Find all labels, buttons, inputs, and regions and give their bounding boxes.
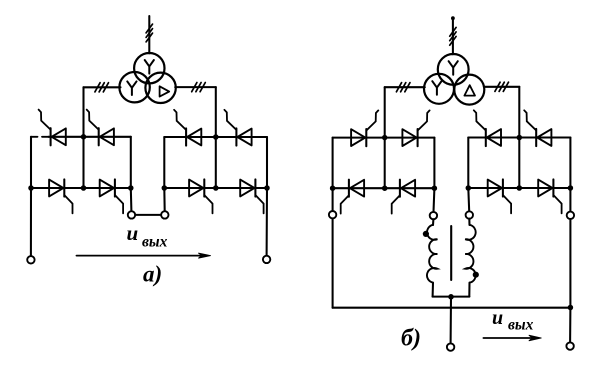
thyristor VS4 (100, 180, 114, 197)
transformer T1 primary feed wire (148, 16, 150, 53)
node junction (568, 185, 574, 191)
wire right feed drop (215, 87, 217, 137)
wire right vertical right group (266, 137, 268, 188)
svg-text:вых: вых (142, 233, 168, 250)
wire midpoint down to output (450, 297, 452, 344)
thyristor VS5 (187, 129, 201, 146)
terminal output left (27, 256, 34, 263)
node junction (213, 185, 219, 191)
wire right vertical right group (b) (569, 138, 571, 189)
wire left vertical (30, 137, 32, 188)
thyristor VS12 (401, 180, 415, 197)
thyristor VS6 (237, 129, 251, 146)
thyristor VS15 (488, 180, 502, 197)
3-phase marks left feed T2 (396, 83, 401, 92)
svg-text:а): а) (143, 262, 162, 287)
thyristor VS7 (189, 180, 203, 197)
thyristor VS9 (351, 129, 365, 146)
node junction (432, 185, 438, 191)
svg-text:вых: вых (508, 316, 534, 333)
node junction bottom-left (28, 185, 34, 191)
wire left vertical right group (b) (467, 138, 469, 189)
thyristor VS13 (487, 129, 501, 146)
transformer T1 3-phase marks on feed (146, 24, 152, 33)
svg-text:и: и (127, 221, 139, 245)
terminal center-left (128, 211, 135, 218)
wire down to reactor terminal right (467, 188, 470, 211)
reactor L1 right winding (465, 225, 476, 283)
terminal reactor left (430, 212, 437, 219)
delta symbol right winding (160, 86, 170, 96)
svg-text:б): б) (401, 325, 421, 351)
reactor core (450, 226, 452, 280)
thyristor VS3 (49, 180, 63, 197)
Y symbol top winding T2 (449, 61, 458, 75)
polarity dot left winding (423, 231, 429, 237)
feed top endpoint dot (451, 16, 455, 20)
reactor L1 left winding (427, 225, 437, 283)
transformer T2 winding circle (left, Y) (424, 74, 454, 104)
terminal output center (b) (447, 343, 454, 350)
node junction reactor midpoint (448, 294, 454, 300)
wire right feed drop T2 (518, 87, 520, 138)
wire T1 left phase horizontal (84, 86, 121, 88)
transformer T1 winding circle (top, Y) (134, 53, 164, 83)
wire to terminal (30, 188, 32, 256)
node junction right group top (213, 134, 219, 140)
3-phase marks right feed T2 (495, 82, 500, 91)
thyristor VS8 (240, 180, 254, 197)
node junction (382, 185, 388, 191)
wire T1 right phase horizontal (175, 86, 216, 88)
node junction (264, 185, 270, 191)
wire left vertical (b) (332, 138, 334, 189)
wire bottom rail left group (31, 187, 131, 189)
wire center vertical left group (b) (384, 138, 386, 189)
wire reactor left lead (432, 219, 434, 225)
transformer T2 primary feed wire (452, 18, 454, 54)
node junction (162, 185, 168, 191)
wire left feed drop T2 (384, 87, 386, 137)
thyristor VS16 (538, 180, 552, 197)
wire right vertical left group (130, 137, 132, 188)
wire bottom rail right group (b) (468, 187, 570, 189)
wire top rail left group (49, 136, 131, 138)
terminal reactor right (466, 211, 473, 218)
svg-text:и: и (492, 307, 503, 329)
delta symbol right winding T2 (464, 85, 475, 95)
wire bottom rail left group (b) (333, 187, 435, 189)
transformer T1 winding circle (left, Y) (119, 72, 149, 102)
wire top rail left group (dashed start) (31, 136, 38, 138)
terminal left (b) (329, 211, 336, 218)
wire top rail left group (b) (333, 137, 435, 139)
3-phase marks right feed (192, 83, 197, 92)
transformer T2 winding circle (right, delta) (454, 75, 484, 105)
wire reactor bottom tie (433, 296, 470, 298)
node junction right group top (b) (517, 135, 523, 141)
node junction (517, 185, 523, 191)
wire top rail right group (b) (468, 136, 570, 138)
Y symbol left winding T2 (432, 81, 441, 95)
wire T2 left phase horizontal (385, 86, 425, 88)
3-phase marks left feed (95, 83, 100, 92)
wire right winding bottom (468, 283, 470, 297)
wire to right terminal (266, 188, 268, 256)
terminal right (b) (567, 212, 574, 219)
node junction (466, 185, 472, 191)
transformer T1 winding circle (right, delta) (145, 73, 175, 103)
thyristor VS11 (350, 180, 364, 197)
Y symbol top winding (145, 60, 154, 74)
wire to terminal (332, 188, 334, 211)
wire right vertical left group (b) (433, 138, 435, 189)
terminal center-right (161, 211, 168, 218)
wire center vertical left group (82, 137, 84, 188)
wire center vertical right group (b) (518, 138, 520, 189)
wire bottom rail right group (164, 187, 267, 189)
arrow u_vyh (a) (77, 255, 202, 257)
wire left vertical right group (163, 137, 165, 188)
wire reactor right lead (468, 219, 470, 225)
terminal output right (263, 256, 270, 263)
wire T2 right phase horizontal (484, 86, 520, 88)
wire down to output terminal (b) (569, 308, 571, 343)
thyristor VS14 (537, 129, 551, 146)
Y symbol left winding (127, 81, 136, 95)
wire left outer drop to bottom rail (332, 218, 334, 307)
terminal output right (b) (566, 342, 573, 349)
polarity dot right winding (473, 272, 479, 278)
transformer T2 winding circle (top, Y) (438, 54, 469, 85)
node junction bottom right (b) (568, 305, 574, 311)
node junction (330, 185, 336, 191)
transformer T2 3-phase marks on feed (450, 27, 456, 36)
wire left winding bottom (432, 283, 434, 297)
arrow u_vyh (b) (483, 337, 531, 339)
wire down to reactor terminal (432, 188, 435, 212)
wire right outer drop (569, 219, 571, 307)
node junction left group top (b) (382, 135, 388, 141)
thyristor VS1 (52, 128, 66, 145)
node junction bottom-right of left group (128, 185, 134, 191)
thyristor VS10 (402, 129, 416, 146)
wire to terminal right (b) (569, 188, 571, 212)
wire between center terminals (135, 214, 161, 216)
thyristor VS2 (100, 128, 114, 145)
wire top rail right group (164, 136, 267, 138)
node junction bottom-center (81, 185, 87, 191)
wire down to center terminal 2 (163, 188, 165, 211)
node junction left group top (81, 134, 87, 140)
wire center vertical right group (215, 137, 217, 188)
wire left feed drop (82, 87, 84, 137)
wire down to center terminal (130, 188, 133, 211)
wire long bottom rail (b) (333, 307, 571, 309)
